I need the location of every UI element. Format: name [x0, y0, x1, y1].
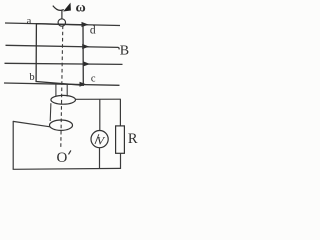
axis stub above O — [61, 11, 63, 20]
slip ring 1 (upper ellipse) — [51, 95, 76, 104]
wire: voltmeter branch lower — [99, 148, 101, 169]
voltmeter circle — [91, 131, 108, 148]
svg-text:V: V — [97, 133, 106, 147]
field line 2 (through B) — [6, 45, 120, 49]
coil abcd — [36, 24, 83, 86]
label V — [97, 133, 106, 147]
voltmeter needle — [95, 134, 99, 144]
label R — [128, 131, 138, 147]
resistor R box — [116, 126, 125, 153]
wire: upper brush to right — [75, 98, 120, 100]
svg-text:a: a — [27, 16, 32, 27]
label d — [90, 24, 96, 36]
rotation axis OO' (dashed) — [61, 26, 63, 148]
field line 4 (through b-c) — [4, 83, 120, 85]
wire: left vertical — [12, 121, 14, 170]
svg-text:c: c — [91, 74, 96, 85]
svg-text:O: O — [57, 150, 68, 166]
arrowhead on field line 4 — [80, 82, 87, 87]
label c — [91, 74, 96, 85]
wire: resistor to bottom — [120, 153, 122, 169]
svg-text:d: d — [90, 24, 96, 36]
label B — [120, 43, 129, 58]
coil lead wire left — [55, 84, 57, 96]
svg-text:R: R — [128, 131, 138, 147]
coil lead wire right — [66, 84, 68, 96]
wire: bottom — [13, 167, 121, 170]
arrowhead on field line 1 — [82, 22, 89, 27]
slip ring 2 (lower ellipse) — [50, 120, 73, 130]
cylinder side line — [49, 103, 52, 121]
wire: left brush to lower ring — [13, 121, 50, 126]
pivot circle O — [58, 19, 65, 26]
field line 3 — [5, 63, 123, 64]
rotation arc — [53, 6, 64, 11]
arrowhead on field line 3 — [83, 61, 90, 66]
svg-text:ω: ω — [76, 0, 86, 15]
label a — [27, 16, 32, 27]
label omega — [76, 0, 86, 15]
arrowhead on field line 2 — [82, 44, 89, 49]
rotation arrowhead — [63, 3, 71, 12]
field line 1 (through a-d) — [5, 23, 120, 26]
label b — [29, 72, 34, 83]
wire: voltmeter branch upper — [99, 100, 101, 131]
svg-text:b: b — [29, 72, 34, 83]
label O' — [57, 150, 71, 166]
svg-text:B: B — [120, 43, 129, 58]
wire: right vertical to resistor — [119, 99, 121, 126]
